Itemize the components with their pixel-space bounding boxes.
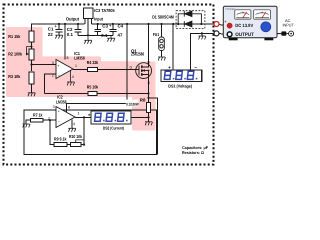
svg-text:1: 1 — [75, 64, 77, 68]
highlight region R8 column — [132, 93, 156, 131]
svg-text:R2 100k: R2 100k — [8, 51, 22, 56]
svg-text:R9 9.1k: R9 9.1k — [54, 137, 67, 142]
display DS1 digits — [164, 71, 194, 79]
op-amp IC2 — [56, 107, 75, 128]
capacitor C3 — [94, 24, 101, 35]
svg-text:V: V — [242, 11, 244, 15]
PSU meter V — [235, 10, 251, 19]
svg-text:LM358: LM358 — [56, 100, 67, 105]
svg-text:Input: Input — [94, 17, 103, 22]
wire Q1 source to R8 — [142, 74, 149, 102]
svg-text:R7 1k: R7 1k — [33, 112, 43, 117]
resistor R9 — [54, 143, 67, 147]
wire R3 to ground — [31, 84, 33, 93]
power supply unit body — [223, 6, 277, 38]
highlight region main band — [41, 56, 101, 97]
svg-text:R5 10k: R5 10k — [87, 85, 99, 90]
ground under C1 — [55, 35, 63, 39]
svg-text:0.1/100W: 0.1/100W — [126, 102, 139, 106]
svg-text:IC3 TA7805: IC3 TA7805 — [94, 8, 115, 13]
PSU black terminal — [227, 32, 232, 37]
wire riser to IC2 output node — [83, 117, 85, 144]
svg-text:4: 4 — [73, 122, 75, 126]
ground IC1 pin4 — [67, 71, 75, 86]
svg-text:D1 S80SC4M: D1 S80SC4M — [152, 15, 174, 20]
svg-text:C1: C1 — [48, 26, 54, 31]
svg-text:R8: R8 — [140, 97, 146, 102]
wire R1 R2 R3 chain — [31, 42, 33, 49]
svg-text:Output: Output — [66, 17, 80, 22]
display DS1 decimal points — [173, 78, 198, 80]
terminal positive — [214, 22, 219, 27]
svg-text:2: 2 — [52, 74, 54, 78]
wire R10 to riser — [81, 144, 84, 146]
capacitor C2 — [75, 24, 113, 35]
wire R7 to ground — [26, 120, 31, 123]
svg-text:+: + — [58, 110, 60, 114]
display DS2 digits — [95, 113, 125, 121]
PSU meter A — [254, 10, 271, 19]
display DS2 — [91, 111, 131, 124]
svg-text:2: 2 — [48, 116, 50, 120]
resistor R4 — [88, 68, 98, 72]
label AC INPUT — [283, 18, 295, 28]
resistor R7 — [31, 118, 43, 122]
svg-text:R3 10k: R3 10k — [8, 74, 20, 79]
wire IC1 output to R4 — [73, 69, 88, 71]
wire DS2 minus to R8 bottom — [131, 116, 149, 118]
svg-text:C3: C3 — [102, 23, 108, 28]
svg-text:C4: C4 — [118, 23, 124, 28]
wire DS1 plus sense — [172, 24, 174, 70]
terminal negative — [214, 31, 219, 36]
capacitor C4 (electrolytic) — [110, 24, 117, 35]
capacitor C1 — [56, 24, 63, 35]
svg-text:−: − — [58, 119, 60, 123]
svg-text:Resistors: Ω: Resistors: Ω — [182, 150, 205, 155]
wire negative rail ground stem — [201, 33, 203, 36]
transistor Q1 MOSFET — [136, 63, 152, 79]
wire IC1 pin2 feedback — [45, 74, 56, 94]
svg-text:R4 22k: R4 22k — [87, 60, 99, 65]
ground negative rail — [198, 36, 206, 40]
ground under FA1 — [158, 57, 166, 61]
svg-text:22: 22 — [48, 32, 53, 37]
wire IC1 pin8 to 5V — [64, 24, 66, 60]
svg-text:8: 8 — [67, 56, 69, 60]
ground under C3 C4 — [107, 35, 115, 41]
resistor R2 wiper arrow — [26, 46, 33, 56]
svg-text:G: G — [130, 66, 133, 70]
wire main input bus — [92, 23, 215, 25]
highlight region left column — [6, 27, 43, 97]
wire pin2 down to R9 — [50, 120, 54, 144]
svg-text:+: + — [168, 66, 171, 71]
svg-text:4: 4 — [72, 75, 74, 79]
highlight region Q1 — [134, 62, 156, 98]
diode D1 lower — [184, 21, 192, 27]
svg-text:DC 13.8V: DC 13.8V — [235, 23, 254, 28]
resistor R1 — [29, 31, 34, 42]
fuse FA1 — [159, 37, 165, 51]
wire FA1 stem bottom — [161, 51, 163, 57]
resistor R10 (variable) — [71, 143, 82, 147]
svg-text:1: 1 — [78, 112, 80, 116]
svg-text:+: + — [88, 114, 91, 119]
wire IC2 pin2 to R7 — [43, 119, 56, 121]
PSU knob — [261, 22, 271, 32]
wire positive terminal to PSU — [219, 24, 227, 27]
svg-text:3: 3 — [53, 105, 55, 109]
svg-text:+: + — [58, 64, 60, 68]
svg-text:−: − — [194, 66, 197, 71]
AC cord — [277, 33, 288, 35]
resistor R8 — [146, 102, 150, 112]
ground IC2 pin4 — [68, 128, 76, 132]
svg-text:2SK2586: 2SK2586 — [131, 52, 144, 57]
svg-text:R1 15k: R1 15k — [8, 34, 20, 39]
wire R5 to rail — [97, 93, 148, 95]
dotted page border — [4, 5, 214, 165]
op-amp IC1 — [56, 60, 73, 79]
wire negative rail — [190, 32, 214, 34]
wire R8 to ground — [148, 112, 150, 121]
svg-text:R10 10k: R10 10k — [69, 134, 82, 139]
wire 5V output bus — [32, 24, 85, 31]
svg-text:FA1: FA1 — [153, 32, 160, 37]
AC plug body — [281, 31, 286, 35]
svg-text:DS1 (Voltage): DS1 (Voltage) — [168, 83, 192, 88]
diode D1 upper — [178, 11, 201, 24]
wire R2 to R3 — [31, 60, 33, 71]
display DS1 — [161, 70, 202, 82]
svg-text:47: 47 — [118, 32, 123, 37]
wire R4 to Q1 gate — [97, 69, 139, 71]
svg-text:8: 8 — [68, 106, 70, 110]
svg-text:A: A — [261, 11, 263, 15]
regulator IC3 body — [83, 8, 93, 35]
ground under R8 — [145, 122, 153, 126]
svg-text:INPUT: INPUT — [283, 23, 295, 28]
wire divider tap to IC1 pin3 — [32, 64, 57, 66]
resistor R10 wiper arrow — [76, 140, 84, 145]
wire IC2 pin4 stem — [71, 120, 73, 129]
wire DS1 minus sense — [190, 33, 192, 70]
svg-text:−: − — [132, 116, 135, 121]
wire negative terminal to PSU — [219, 33, 227, 36]
wire Q1 drain to bus — [142, 24, 149, 67]
PSU red terminal — [227, 23, 232, 28]
meter module box — [24, 110, 156, 155]
svg-text:0.1: 0.1 — [101, 33, 108, 38]
ground under R7 — [23, 124, 31, 128]
wire R9 to R10 — [67, 144, 71, 146]
wire FA1 stem top — [161, 24, 163, 37]
svg-text:IC2: IC2 — [57, 94, 63, 99]
highlight region band right part — [100, 61, 136, 97]
ground under R3 — [28, 93, 36, 97]
PSU feet — [229, 38, 274, 41]
wire R5 feedback run — [45, 93, 88, 95]
svg-text:3: 3 — [52, 61, 54, 65]
ground under IC3 and C2 — [84, 35, 92, 44]
resistor R2 (variable) — [29, 49, 34, 60]
svg-text:D: D — [148, 61, 151, 65]
svg-text:−: − — [58, 73, 60, 77]
svg-text:LM358: LM358 — [74, 56, 85, 61]
resistor R5 — [88, 92, 97, 96]
resistor R3 — [29, 72, 34, 84]
wire R8 sense to box edge — [149, 98, 158, 155]
wire output rail vertical — [67, 24, 128, 112]
AC socket — [289, 31, 294, 36]
svg-text:DS2 (Current): DS2 (Current) — [103, 126, 124, 131]
display DS2 decimal points — [103, 120, 128, 122]
svg-text:0.1: 0.1 — [67, 32, 74, 37]
wire IC2 output to DS2 — [75, 116, 91, 118]
svg-text:POWER: POWER — [226, 8, 236, 11]
svg-text:OUTPUT: OUTPUT — [235, 32, 254, 38]
diode pair D1 dashed package — [176, 11, 205, 29]
